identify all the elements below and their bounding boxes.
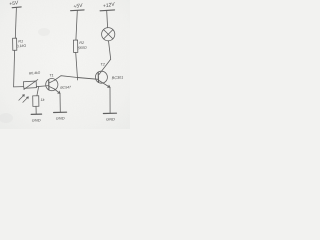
T1 emitter wire with arrow — [54, 89, 60, 93]
wire lamp to T2 collector — [109, 41, 111, 59]
transistor T2 — [95, 71, 107, 83]
svg-text:GND: GND — [106, 117, 115, 122]
svg-text:1k: 1k — [41, 98, 45, 102]
wire LDR to T1 base — [36, 86, 48, 87]
wire supply to R1 — [15, 8, 16, 39]
svg-text:GND: GND — [32, 117, 41, 122]
wire T2 emitter to ground — [109, 87, 111, 113]
svg-text:GND: GND — [56, 116, 65, 121]
wire R1 down — [14, 50, 15, 87]
svg-text:R1: R1 — [18, 39, 23, 43]
wire node to T2 base — [77, 78, 98, 80]
ground (middle) — [54, 111, 67, 113]
lamp L1 — [102, 28, 115, 41]
wire corner to LDR — [14, 86, 24, 88]
T2 collector diagonal — [99, 59, 111, 74]
resistor R3 — [33, 96, 39, 107]
svg-text:BC301: BC301 — [112, 76, 124, 81]
junction drop wire — [37, 87, 39, 96]
ground (right) — [103, 112, 116, 114]
svg-text:T1: T1 — [49, 73, 53, 77]
T2 emitter wire with arrow — [99, 80, 110, 87]
wire supply to lamp — [106, 11, 109, 28]
svg-text:560Ω: 560Ω — [78, 46, 87, 51]
wire supply to R2 — [76, 11, 77, 40]
power +12V (right supply bar) — [100, 9, 115, 12]
T1 collector wire — [55, 76, 78, 81]
svg-text:BC547: BC547 — [60, 85, 72, 90]
wire R2 to collector node — [76, 52, 78, 80]
ground (left) — [31, 113, 41, 115]
resistor R2 — [73, 40, 77, 52]
wire T1 emitter to ground — [59, 93, 61, 112]
resistor R1 — [13, 38, 17, 50]
power +5V (left supply bar) — [12, 6, 21, 9]
wire R3 to ground — [35, 106, 37, 114]
LDR R2 (box) — [23, 81, 36, 88]
svg-text:0,1kΩ: 0,1kΩ — [16, 44, 26, 49]
power +5V (middle supply bar) — [71, 9, 85, 12]
transistor T1 — [46, 79, 58, 91]
LDR diagonal arrow — [24, 80, 38, 90]
light arrow 2 — [23, 97, 29, 103]
light arrow 1 — [19, 95, 25, 101]
